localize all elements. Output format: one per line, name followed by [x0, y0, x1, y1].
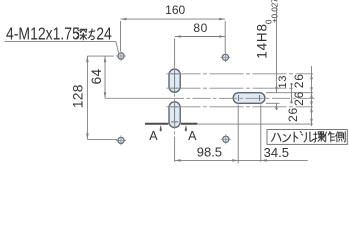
kanji 作: [324, 131, 335, 142]
bottom dimension line 98.5 / 34.5: [175, 159, 308, 162]
chain line lower slot top arc: [167, 106, 314, 108]
bolt hole H3 bottom-left: [116, 135, 126, 145]
right dim line inner 13: [290, 83, 293, 104]
bottom extension from hslot left arc: [237, 105, 239, 164]
chain line upper slot bottom arc: [167, 87, 294, 89]
svg-text:98.5: 98.5: [197, 144, 222, 159]
section arrow left: [159, 126, 162, 132]
svg-text:80: 80: [193, 21, 208, 35]
section line A-A: [145, 123, 197, 125]
extension line 80 left: [174, 39, 176, 66]
lower vertical slot: [169, 102, 180, 128]
leader line under note: [5, 42, 119, 53]
extension line 160 left: [120, 21, 122, 51]
bolt hole H4 bottom-right: [221, 134, 231, 144]
svg-text:24: 24: [96, 25, 112, 44]
dimension 80: [175, 35, 225, 38]
14H8 tolerance rotated text: [254, 0, 279, 59]
ext line hslot top: [266, 92, 313, 94]
svg-text:128: 128: [71, 84, 86, 108]
centerline horizontal main: [105, 97, 314, 99]
katakana ド: [294, 131, 303, 142]
dimension 128 vertical: [87, 138, 117, 140]
svg-text:A: A: [188, 129, 197, 143]
handle side label box: [267, 130, 347, 145]
svg-text:13: 13: [277, 75, 289, 89]
kanji 深: [76, 29, 87, 40]
svg-text:0: 0: [265, 19, 274, 24]
katakana ハ: [271, 133, 281, 142]
cutting line extension: [197, 123, 313, 125]
svg-text:4-M12x1.75: 4-M12x1.75: [6, 25, 80, 44]
svg-text:14H8: 14H8: [254, 23, 269, 58]
bottom extension from slot center: [174, 136, 176, 161]
section arrow right: [185, 126, 188, 132]
extension line 160/80 right: [224, 21, 226, 53]
svg-text:A: A: [149, 129, 158, 143]
kanji さ: [88, 29, 95, 40]
chain line upper slot top arc: [167, 73, 314, 75]
kanji 操: [313, 132, 325, 143]
svg-text:26: 26: [292, 91, 306, 106]
katakana ン: [283, 134, 291, 142]
svg-text:160: 160: [165, 3, 185, 17]
dimension 64 vertical: [87, 55, 113, 57]
svg-text:64: 64: [89, 69, 104, 85]
dimension 160: [121, 18, 226, 21]
ext line hslot bottom: [266, 102, 280, 104]
bottom extension from hslot right arc: [260, 105, 262, 162]
14H8 dimension line vertical: [275, 6, 278, 110]
svg-text:26: 26: [286, 107, 300, 122]
right dim line outer 26/26/26: [310, 66, 313, 126]
svg-text:26: 26: [292, 73, 306, 88]
centerline vertical slot column: [174, 61, 176, 136]
kanji 側: [335, 131, 345, 142]
upper vertical slot: [169, 69, 180, 92]
bolt hole H2 top-right: [220, 52, 230, 62]
katakana ル: [304, 132, 314, 143]
bolt hole H1 top-left: [116, 51, 126, 61]
horizontal slot: [233, 93, 265, 104]
svg-text:34.5: 34.5: [264, 145, 289, 160]
